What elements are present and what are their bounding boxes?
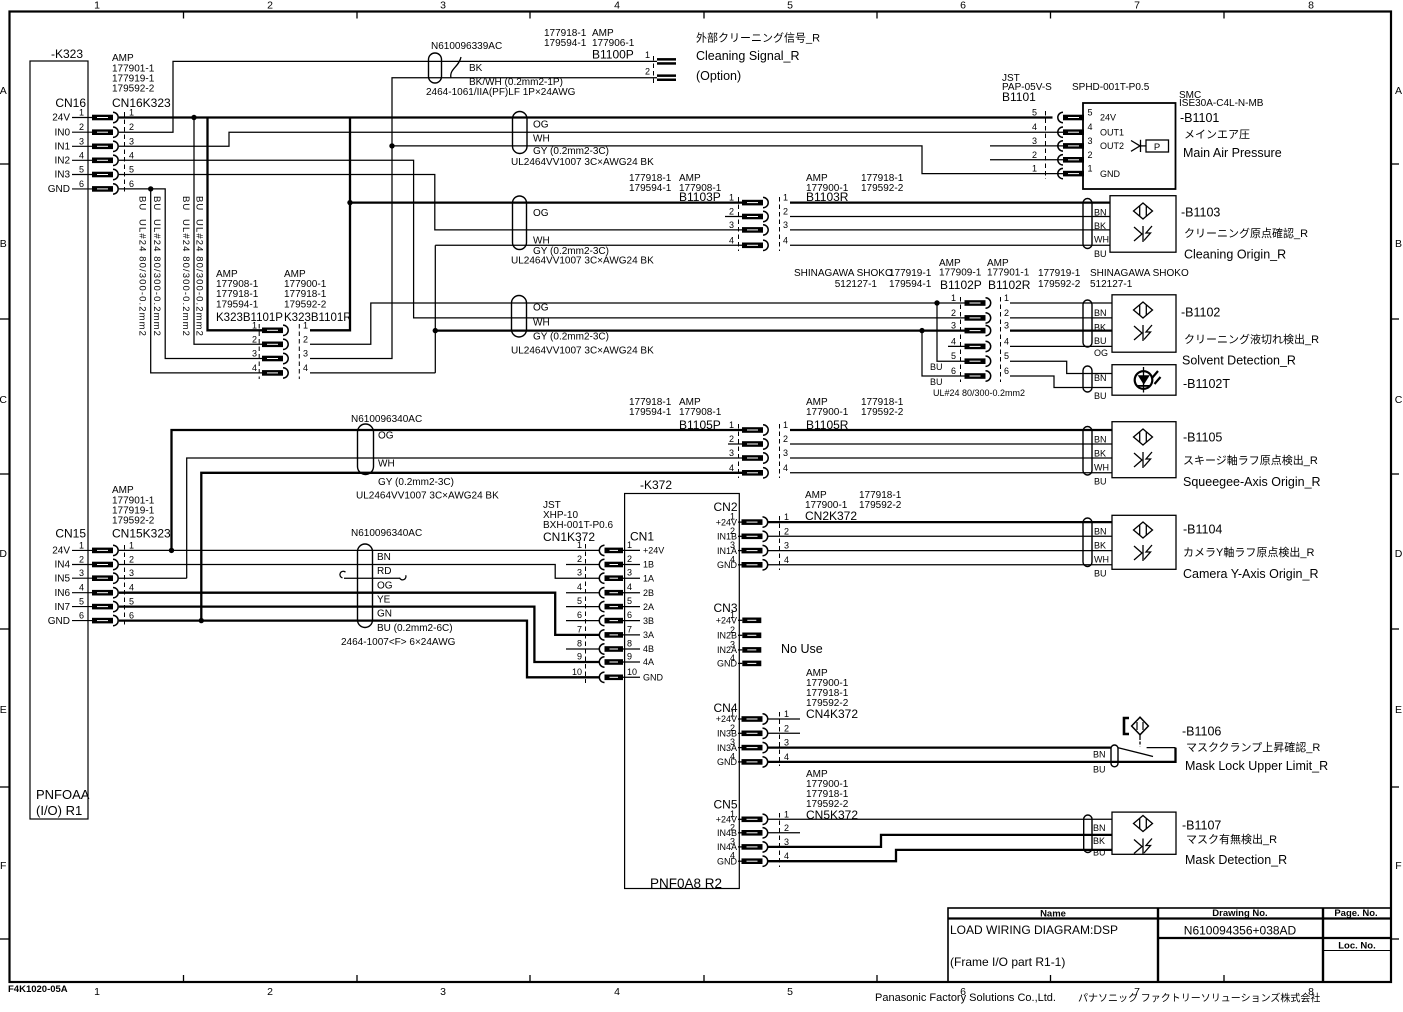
svg-text:6: 6 [960,0,966,12]
svg-text:179594-1: 179594-1 [216,300,259,311]
svg-text:2: 2 [577,554,582,564]
svg-text:8: 8 [1308,0,1314,12]
svg-text:-B1105: -B1105 [1183,431,1222,445]
svg-text:-B1107: -B1107 [1182,819,1221,833]
svg-text:ISE30A-C4L-N-MB: ISE30A-C4L-N-MB [1179,98,1264,109]
svg-text:Panasonic Factory Solutions Co: Panasonic Factory Solutions Co.,Ltd. [875,992,1056,1004]
svg-text:3: 3 [79,136,84,146]
svg-text:(I/O) R1: (I/O) R1 [36,803,82,818]
svg-text:WH: WH [533,236,550,247]
svg-text:WH: WH [533,318,550,329]
svg-text:BN: BN [1093,750,1106,760]
svg-text:177918-1: 177918-1 [284,289,327,300]
svg-text:E: E [1395,704,1402,716]
svg-text:4: 4 [730,851,735,861]
svg-text:2A: 2A [643,602,654,612]
svg-text:OG: OG [378,431,394,442]
svg-text:-B1104: -B1104 [1183,523,1222,537]
svg-text:Cleaning Signal_R: Cleaning Signal_R [696,49,800,63]
svg-text:BK: BK [1094,541,1106,551]
svg-text:-K323: -K323 [51,47,83,61]
svg-text:OG: OG [533,208,549,219]
svg-text:4: 4 [783,235,788,245]
svg-text:179592-2: 179592-2 [112,516,155,527]
svg-text:-B1101: -B1101 [1180,111,1219,125]
svg-text:4: 4 [303,363,308,373]
svg-text:4A: 4A [643,657,654,667]
svg-text:Squeegee-Axis Origin_R: Squeegee-Axis Origin_R [1183,475,1321,489]
svg-text:24V: 24V [52,113,70,124]
svg-text:メインエア圧: メインエア圧 [1184,129,1250,141]
svg-text:177909-1: 177909-1 [939,268,982,279]
svg-text:OUT2: OUT2 [1100,141,1124,151]
svg-text:UL#24 80/300-0.2mm2: UL#24 80/300-0.2mm2 [933,388,1025,398]
svg-text:(Option): (Option) [696,69,741,83]
svg-text:2: 2 [303,334,308,344]
svg-text:3: 3 [303,349,308,359]
svg-text:+24V: +24V [643,546,664,556]
svg-text:2: 2 [784,823,789,833]
svg-text:512127-1: 512127-1 [835,279,878,290]
svg-text:179592-2: 179592-2 [284,300,327,311]
svg-text:BK: BK [469,63,483,74]
svg-text:1: 1 [129,540,134,550]
svg-text:177919-1: 177919-1 [1038,268,1081,279]
svg-text:1: 1 [1004,293,1009,303]
svg-text:4: 4 [784,851,789,861]
svg-text:4: 4 [951,336,956,346]
svg-text:4: 4 [1004,336,1009,346]
svg-text:K323B1101R: K323B1101R [284,312,352,324]
svg-text:3: 3 [784,738,789,748]
svg-text:3: 3 [440,986,446,998]
svg-text:RD: RD [377,566,391,577]
svg-text:外部クリーニング信号_R: 外部クリーニング信号_R [696,31,820,45]
svg-text:カメラY軸ラフ原点検出_R: カメラY軸ラフ原点検出_R [1183,545,1314,559]
svg-text:BU: BU [151,196,162,211]
svg-text:9: 9 [577,652,582,662]
svg-text:BK: BK [1093,836,1105,846]
svg-text:7: 7 [627,624,632,634]
svg-text:1: 1 [129,108,134,118]
svg-text:BN: BN [1094,207,1107,217]
svg-text:177908-1: 177908-1 [679,407,722,418]
svg-text:BU: BU [930,362,943,372]
svg-text:BK: BK [1094,449,1106,459]
svg-text:9: 9 [627,652,632,662]
svg-text:UL2464VV1007 3C×AWG24 BK: UL2464VV1007 3C×AWG24 BK [511,256,654,267]
svg-text:2: 2 [729,434,734,444]
svg-text:CN1K372: CN1K372 [543,530,595,544]
svg-text:B1102R: B1102R [988,278,1031,292]
svg-text:WH: WH [378,459,395,470]
svg-text:IN2: IN2 [54,156,70,167]
svg-text:2: 2 [951,308,956,318]
svg-text:D: D [0,548,7,560]
svg-text:BU: BU [1094,569,1107,579]
svg-text:1A: 1A [643,573,654,583]
svg-text:177900-1: 177900-1 [806,407,849,418]
svg-text:C: C [1395,394,1403,406]
svg-text:2: 2 [79,555,84,565]
svg-text:IN5: IN5 [54,573,70,584]
svg-text:WH: WH [1094,555,1109,565]
svg-text:5: 5 [787,986,793,998]
svg-text:SPHD-001T-P0.5: SPHD-001T-P0.5 [1072,82,1150,93]
svg-text:3: 3 [729,448,734,458]
svg-text:BK: BK [1094,323,1106,333]
svg-text:4: 4 [252,363,257,373]
svg-text:2: 2 [252,334,257,344]
svg-text:2: 2 [1032,150,1037,160]
svg-text:3: 3 [129,568,134,578]
svg-text:GND: GND [48,184,70,195]
svg-text:5: 5 [129,597,134,607]
svg-text:3: 3 [784,541,789,551]
svg-text:6: 6 [79,611,84,621]
svg-text:1: 1 [730,512,735,522]
svg-text:4: 4 [729,463,734,473]
svg-text:B1103R: B1103R [806,190,849,204]
svg-text:GY (0.2mm2-3C): GY (0.2mm2-3C) [533,332,609,343]
svg-text:Loc. No.: Loc. No. [1338,941,1375,952]
svg-text:2: 2 [627,554,632,564]
svg-text:2: 2 [784,723,789,733]
svg-text:Camera Y-Axis Origin_R: Camera Y-Axis Origin_R [1183,567,1318,581]
svg-text:4B: 4B [643,644,654,654]
svg-text:2: 2 [1004,308,1009,318]
svg-text:4: 4 [129,150,134,160]
svg-text:BU: BU [194,196,205,211]
svg-text:1: 1 [94,0,100,12]
svg-text:4: 4 [1087,122,1092,132]
svg-text:2: 2 [267,986,273,998]
svg-text:UL#24 80/300-0.2mm2: UL#24 80/300-0.2mm2 [194,219,205,337]
svg-text:2: 2 [645,67,650,77]
svg-text:SHINAGAWA SHOKO: SHINAGAWA SHOKO [1090,268,1189,279]
svg-text:2: 2 [267,0,273,12]
svg-text:BU: BU [1094,477,1107,487]
svg-text:1: 1 [784,809,789,819]
svg-text:B1103P: B1103P [679,190,721,204]
svg-text:177918-1: 177918-1 [216,289,259,300]
svg-text:4: 4 [784,752,789,762]
svg-text:F4K1020-05A: F4K1020-05A [8,984,68,995]
svg-text:5: 5 [951,351,956,361]
svg-text:177919-1: 177919-1 [889,268,932,279]
svg-text:4: 4 [79,150,84,160]
svg-text:PNF0A8 R2: PNF0A8 R2 [650,876,722,891]
svg-text:UL#24 80/300-0.2mm2: UL#24 80/300-0.2mm2 [137,219,148,337]
svg-text:Mask Detection_R: Mask Detection_R [1185,853,1287,867]
svg-text:7: 7 [577,624,582,634]
svg-text:3: 3 [79,568,84,578]
svg-text:3: 3 [730,836,735,846]
svg-text:BU: BU [930,377,943,387]
svg-text:B1101: B1101 [1002,90,1036,104]
svg-text:UL2464VV1007 3C×AWG24 BK: UL2464VV1007 3C×AWG24 BK [511,346,654,357]
svg-text:179592-2: 179592-2 [861,183,904,194]
svg-text:D: D [1395,548,1403,560]
svg-text:4: 4 [730,554,735,564]
svg-text:2: 2 [783,207,788,217]
svg-text:4: 4 [79,583,84,593]
svg-text:4: 4 [577,582,582,592]
svg-text:2: 2 [1087,150,1092,160]
svg-text:BU: BU [1093,765,1106,775]
svg-text:CN16K323: CN16K323 [112,96,171,110]
svg-text:A: A [0,85,7,97]
svg-text:4: 4 [1032,122,1037,132]
svg-text:6: 6 [129,179,134,189]
svg-text:PNFOAA: PNFOAA [36,787,90,802]
svg-text:BN: BN [1094,308,1107,318]
svg-text:AMP: AMP [112,53,134,64]
svg-text:10: 10 [627,667,637,677]
svg-text:5: 5 [79,165,84,175]
svg-text:YE: YE [377,595,391,606]
svg-text:BU: BU [1093,848,1106,858]
svg-text:179594-1: 179594-1 [889,279,932,290]
svg-text:N610096339AC: N610096339AC [431,41,502,52]
svg-text:AMP: AMP [112,485,134,496]
svg-text:10: 10 [572,667,582,677]
svg-text:No Use: No Use [781,642,823,656]
svg-text:3: 3 [627,568,632,578]
svg-text:1: 1 [784,512,789,522]
svg-text:179594-1: 179594-1 [544,38,587,49]
svg-text:A: A [1395,85,1402,97]
svg-text:3B: 3B [643,616,654,626]
svg-text:パナソニック ファクトリーソリューションズ株式会社: パナソニック ファクトリーソリューションズ株式会社 [1078,992,1320,1005]
svg-text:2: 2 [730,526,735,536]
svg-text:B: B [0,238,7,250]
svg-text:3: 3 [730,639,735,649]
svg-text:2B: 2B [643,588,654,598]
svg-text:2: 2 [79,122,84,132]
svg-text:4: 4 [627,582,632,592]
svg-text:1: 1 [79,540,84,550]
svg-text:2464-1007<F> 6×24AWG: 2464-1007<F> 6×24AWG [341,637,456,648]
svg-text:2: 2 [730,822,735,832]
svg-text:WH: WH [1094,463,1109,473]
svg-text:4: 4 [129,583,134,593]
svg-text:2: 2 [730,723,735,733]
svg-text:2: 2 [730,625,735,635]
svg-text:OG: OG [1094,348,1108,358]
svg-text:5: 5 [577,596,582,606]
svg-text:B1100P: B1100P [592,48,634,62]
svg-text:Drawing No.: Drawing No. [1212,908,1267,919]
svg-text:CN5K372: CN5K372 [806,808,858,822]
svg-text:Page. No.: Page. No. [1334,908,1377,919]
svg-text:F: F [0,860,6,872]
svg-text:-B1103: -B1103 [1181,206,1220,220]
svg-text:1: 1 [627,540,632,550]
svg-text:2: 2 [129,555,134,565]
svg-text:6: 6 [1004,366,1009,376]
svg-text:2: 2 [729,207,734,217]
svg-text:3: 3 [1004,321,1009,331]
svg-text:1: 1 [730,809,735,819]
svg-text:3: 3 [783,220,788,230]
svg-text:24V: 24V [52,546,70,557]
svg-text:BU: BU [180,196,191,211]
svg-text:1B: 1B [643,560,654,570]
svg-text:N610094356+038AD: N610094356+038AD [1184,924,1297,938]
svg-text:5: 5 [627,596,632,606]
svg-text:2: 2 [129,122,134,132]
svg-text:3: 3 [730,737,735,747]
svg-text:BN: BN [1094,373,1107,383]
svg-text:IN1: IN1 [54,142,70,153]
svg-text:N610096340AC: N610096340AC [351,414,422,425]
svg-text:IN0: IN0 [54,127,70,138]
svg-text:UL2464VV1007 3C×AWG24 BK: UL2464VV1007 3C×AWG24 BK [356,491,499,502]
svg-text:179592-2: 179592-2 [859,500,902,511]
svg-text:2: 2 [783,434,788,444]
svg-text:1: 1 [784,709,789,719]
svg-text:3: 3 [577,568,582,578]
svg-text:177901-1: 177901-1 [987,268,1030,279]
svg-text:4: 4 [730,653,735,663]
svg-text:1: 1 [783,193,788,203]
svg-text:1: 1 [783,420,788,430]
svg-text:F: F [1395,860,1401,872]
svg-text:CN4K372: CN4K372 [806,707,858,721]
svg-text:6: 6 [951,366,956,376]
svg-text:-K372: -K372 [640,478,672,492]
svg-text:5: 5 [129,165,134,175]
svg-text:4: 4 [783,463,788,473]
svg-text:Solvent Detection_R: Solvent Detection_R [1182,354,1296,368]
svg-text:24V: 24V [1100,113,1116,123]
svg-text:BN: BN [1094,435,1107,445]
svg-text:BN: BN [1093,823,1106,833]
svg-text:BN: BN [377,552,391,563]
svg-text:GND: GND [1100,169,1121,179]
svg-text:6: 6 [79,179,84,189]
svg-text:N610096340AC: N610096340AC [351,528,422,539]
svg-text:OUT1: OUT1 [1100,127,1124,137]
svg-text:1: 1 [1087,164,1092,174]
svg-text:スキージ軸ラフ原点検出_R: スキージ軸ラフ原点検出_R [1183,453,1318,467]
svg-text:3A: 3A [643,630,654,640]
svg-text:4: 4 [614,986,620,998]
svg-text:CN15: CN15 [55,527,86,541]
svg-text:6: 6 [627,610,632,620]
svg-text:C: C [0,394,7,406]
svg-text:GY (0.2mm2-3C): GY (0.2mm2-3C) [378,477,454,488]
svg-text:1: 1 [730,709,735,719]
svg-text:4: 4 [730,751,735,761]
svg-text:(Frame I/O part R1-1): (Frame I/O part R1-1) [950,955,1065,969]
svg-text:5: 5 [787,0,793,12]
svg-text:179592-2: 179592-2 [1038,279,1081,290]
svg-text:7: 7 [1134,0,1140,12]
svg-text:GND: GND [48,616,70,627]
svg-text:2464-1061/IIA(PF)LF 1P×24AWG: 2464-1061/IIA(PF)LF 1P×24AWG [426,87,576,98]
svg-text:5: 5 [79,597,84,607]
svg-text:3: 3 [1087,136,1092,146]
svg-text:4: 4 [614,0,620,12]
svg-text:SHINAGAWA SHOKO: SHINAGAWA SHOKO [794,268,893,279]
svg-text:BK: BK [1094,221,1106,231]
svg-text:1: 1 [729,193,734,203]
svg-text:UL#24 80/300-0.2mm2: UL#24 80/300-0.2mm2 [151,219,162,337]
svg-text:179592-2: 179592-2 [112,84,155,95]
svg-text:IN3: IN3 [54,170,70,181]
svg-text:1: 1 [729,420,734,430]
svg-text:-B1106: -B1106 [1182,724,1221,738]
svg-text:CN15K323: CN15K323 [112,527,171,541]
svg-text:3: 3 [783,448,788,458]
svg-text:GN: GN [377,609,392,620]
svg-text:5: 5 [1004,351,1009,361]
svg-text:B1105P: B1105P [679,418,721,432]
svg-text:5: 5 [1032,108,1037,118]
svg-text:512127-1: 512127-1 [1090,279,1133,290]
svg-text:B1105R: B1105R [806,418,849,432]
svg-text:K323B1101P: K323B1101P [216,312,283,324]
svg-text:1: 1 [951,293,956,303]
svg-text:B1102P: B1102P [940,278,982,292]
svg-text:マスク有無検出_R: マスク有無検出_R [1186,832,1277,846]
svg-text:2: 2 [784,526,789,536]
svg-text:BU: BU [137,196,148,211]
svg-text:4: 4 [729,235,734,245]
svg-text:BU: BU [1094,249,1107,259]
svg-text:WH: WH [533,134,550,145]
svg-text:Name: Name [1040,909,1066,920]
svg-text:IN4: IN4 [54,560,70,571]
svg-text:3: 3 [951,321,956,331]
svg-text:BU: BU [1094,336,1107,346]
svg-text:Main Air Pressure: Main Air Pressure [1183,146,1282,160]
svg-text:クリーニング液切れ検出_R: クリーニング液切れ検出_R [1184,332,1319,346]
svg-text:179592-2: 179592-2 [861,407,904,418]
svg-text:8: 8 [577,639,582,649]
svg-text:4: 4 [784,555,789,565]
svg-text:LOAD WIRING DIAGRAM:DSP: LOAD WIRING DIAGRAM:DSP [950,923,1118,937]
svg-text:OG: OG [377,581,393,592]
svg-text:1: 1 [577,540,582,550]
svg-text:IN7: IN7 [54,602,70,613]
svg-text:-B1102: -B1102 [1181,305,1220,319]
svg-text:8: 8 [627,639,632,649]
svg-text:3: 3 [730,540,735,550]
svg-text:B: B [1395,238,1402,250]
svg-text:CN2K372: CN2K372 [805,509,857,523]
svg-text:1: 1 [730,610,735,620]
svg-text:5: 5 [1087,108,1092,118]
svg-text:-B1102T: -B1102T [1183,377,1230,391]
svg-text:Mask Lock Upper Limit_R: Mask Lock Upper Limit_R [1185,759,1328,773]
svg-text:クリーニング原点確認_R: クリーニング原点確認_R [1184,226,1308,240]
svg-text:マスククランプ上昇確認_R: マスククランプ上昇確認_R [1186,740,1320,754]
svg-text:GND: GND [643,673,664,683]
svg-text:3: 3 [1032,136,1037,146]
svg-text:3: 3 [252,349,257,359]
svg-text:OG: OG [533,120,549,131]
svg-text:OG: OG [533,303,549,314]
svg-text:BU: BU [1094,391,1107,401]
svg-text:3: 3 [440,0,446,12]
svg-text:UL#24 80/300-0.2mm2: UL#24 80/300-0.2mm2 [180,219,191,337]
svg-text:1: 1 [645,50,650,60]
svg-text:IN6: IN6 [54,588,70,599]
svg-text:1: 1 [1032,164,1037,174]
